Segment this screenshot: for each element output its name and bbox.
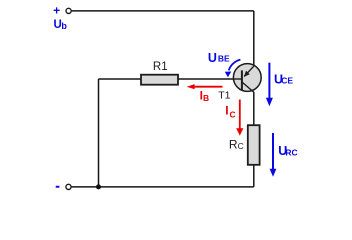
terminal + (top) [66,8,71,13]
wire left drop [98,79,100,187]
svg-text:R1: R1 [153,61,168,73]
resistor R1 [141,75,178,85]
resistor Rc [248,125,260,165]
arrow IC [236,100,243,136]
svg-text:Ub: Ub [54,19,68,31]
arrow IB [187,84,223,89]
arrow URC [270,133,277,177]
wire bottom rail [71,186,254,188]
terminal - (bottom) [66,184,71,189]
arrow UCE [266,63,273,106]
wire transistor to Rc [253,92,255,125]
transistor T1 [233,64,261,93]
wire R1 left to corner [99,78,141,80]
svg-text:UBE: UBE [208,51,230,65]
svg-text:+: + [53,4,60,18]
wire right drop to transistor [253,11,255,65]
wire top rail [71,10,254,12]
wire base from R1 to transistor [178,78,241,80]
node junction bottom-left [96,184,101,189]
label - [56,186,60,188]
arrow UBE arc [225,60,241,78]
wire Rc to bottom rail [253,165,255,187]
svg-text:T1: T1 [218,90,230,102]
